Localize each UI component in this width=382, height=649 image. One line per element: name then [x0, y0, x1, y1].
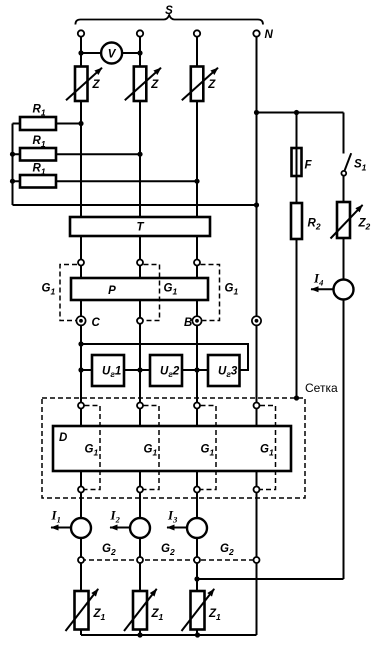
arrow of impedance Z1 phase 2 [124, 589, 157, 631]
junction dot chain line1 [78, 367, 83, 372]
terminal phase 1 [78, 30, 84, 36]
arrow of impedance Z phase 2 [125, 68, 161, 100]
arrow of impedance Z1 phase 1 [66, 589, 99, 631]
switch S1 contact [341, 171, 346, 176]
svg-text:B: B [184, 317, 192, 329]
svg-text:I2: I2 [110, 508, 121, 525]
svg-text:Сетка: Сетка [305, 381, 338, 395]
current source I4 [334, 280, 354, 300]
node circle line2 below D [137, 487, 143, 493]
wire phase line 2 main [139, 101, 141, 635]
impedance Z phase 2 [134, 67, 147, 102]
svg-text:I4: I4 [313, 271, 323, 288]
svg-text:Z: Z [92, 79, 101, 91]
dashed bracket G1 cell 1 in D [85, 406, 101, 490]
arrow of impedance Z phase 1 [66, 68, 102, 100]
svg-text:P: P [108, 285, 116, 297]
wire N to right branches [257, 112, 344, 114]
junction dot chain line3 [194, 367, 199, 372]
dashed bracket G1 cell 3 in D [201, 406, 217, 490]
svg-text:G2: G2 [161, 543, 175, 557]
svg-text:G1: G1 [225, 283, 239, 297]
svg-text:C: C [92, 317, 101, 329]
wire R1 common to N [13, 204, 257, 206]
wire bottom bus [81, 634, 257, 636]
svg-text:I3: I3 [167, 508, 178, 525]
svg-text:Z1: Z1 [151, 608, 164, 622]
impedance Z phase 1 [75, 67, 88, 102]
source block U3 [208, 355, 240, 386]
svg-text:Z2: Z2 [358, 218, 371, 232]
svg-text:I1: I1 [51, 508, 61, 525]
svg-text:N: N [265, 29, 274, 41]
dashed G2 link [81, 559, 257, 561]
wire S1 Z2 column upper [343, 113, 345, 154]
wire phase line 3 main [196, 101, 198, 635]
junction dot R1-2 line2 [137, 152, 142, 157]
svg-text:S: S [165, 5, 173, 17]
switch S1 blade [345, 153, 352, 171]
current source I3 [187, 518, 207, 538]
wire S1 Z2 I4 column lower [343, 176, 345, 580]
svg-text:R1: R1 [33, 104, 46, 118]
svg-text:Z1: Z1 [93, 608, 106, 622]
node circle line1 above D [78, 403, 84, 409]
svg-text:G2: G2 [220, 543, 234, 557]
dashed network box Setka [42, 398, 305, 498]
junction dot bus line2 [137, 632, 142, 637]
junction dot R1-3 line3 [194, 179, 199, 184]
arrow I2 [110, 527, 130, 529]
voltmeter V [101, 43, 122, 64]
terminal line2 row [137, 318, 143, 324]
current source I1 [71, 518, 91, 538]
node circle line2 above D [137, 403, 143, 409]
wire R1-3 to line 3 [13, 180, 198, 182]
fuse F [292, 148, 302, 176]
wire phase line 1 main [80, 101, 82, 635]
terminal phase 2 [137, 30, 143, 36]
wire neutral line N [256, 37, 258, 635]
source block U1 [92, 355, 124, 386]
wire F R2 column [296, 113, 298, 399]
transformer block T [70, 217, 210, 236]
svg-text:F: F [305, 160, 313, 172]
brace S over supply terminals [75, 15, 263, 25]
wire phase line 1 upper [80, 37, 82, 67]
arrow I3 [167, 527, 187, 529]
junction dot N common [254, 202, 259, 207]
resistor R1 second [20, 148, 56, 161]
node circle line1 above P [78, 260, 84, 266]
node circle G2 line2 [137, 557, 143, 563]
terminal N [253, 30, 259, 36]
wire voltmeter branch [81, 52, 140, 54]
svg-text:G2: G2 [102, 543, 116, 557]
arrow of impedance Z2 [331, 205, 363, 239]
current source I2 [130, 518, 150, 538]
resistor R1 first [20, 117, 56, 130]
terminal C [76, 316, 85, 325]
junction dot voltmeter right [137, 50, 142, 55]
arrow I4 [311, 288, 334, 290]
svg-text:S1: S1 [354, 159, 367, 173]
node circle line2 above P [137, 260, 143, 266]
wire phase line 2 upper [139, 37, 141, 67]
svg-text:D: D [59, 432, 67, 444]
node circle line1 below D [78, 487, 84, 493]
svg-text:R1: R1 [33, 135, 46, 149]
node circle G2 line1 [78, 557, 84, 563]
terminal N row [252, 316, 261, 325]
svg-text:G1: G1 [42, 283, 56, 297]
terminal B [192, 316, 201, 325]
wire R1-1 to line 1 [13, 123, 82, 125]
terminal phase 3 [194, 30, 200, 36]
node circle G2 line4 [254, 557, 260, 563]
dashed bracket G1 around line 1 terminals [60, 265, 77, 321]
arrow I1 [51, 527, 71, 529]
wire generator chain [81, 369, 240, 371]
arrow of impedance Z phase 3 [182, 68, 218, 100]
svg-text:T: T [136, 222, 144, 234]
junction dot rail R1-2 [10, 152, 15, 157]
svg-text:Z: Z [207, 79, 216, 91]
dashed bracket G1 cell 2 in D [144, 406, 160, 490]
node circle line4 below D [254, 487, 260, 493]
wire I4 return to line 3 [197, 578, 344, 580]
node circle line3 above P [194, 260, 200, 266]
svg-text:R1: R1 [33, 163, 46, 177]
wire generator ring wrap [81, 344, 248, 370]
junction dot N branch [254, 110, 259, 115]
dashed bracket G1 around line 3 terminals [201, 265, 220, 321]
svg-text:R2: R2 [308, 218, 321, 232]
junction dot wrap line1 [78, 341, 83, 346]
resistor R2 [291, 203, 302, 239]
impedance Z1 phase 3 [191, 591, 205, 630]
junction dot return line3 [194, 576, 199, 581]
impedance Z2 [337, 202, 350, 238]
impedance Z phase 3 [191, 67, 204, 102]
node circle line3 above D [194, 403, 200, 409]
wire R1-2 to line 2 [13, 153, 141, 155]
block D [53, 426, 291, 471]
wire R1 left rail [12, 124, 14, 206]
junction dot bus line3 [195, 632, 200, 637]
arrow of impedance Z1 phase 3 [182, 589, 215, 631]
impedance Z1 phase 1 [75, 591, 89, 630]
junction dot voltmeter left [78, 50, 83, 55]
svg-text:Z1: Z1 [208, 608, 221, 622]
dashed bracket G1 cell 4 in D [260, 406, 276, 490]
dashed bracket G1 around line 2 terminals [144, 265, 160, 321]
wire phase line 3 upper [196, 37, 198, 67]
source block U2 [150, 355, 182, 386]
junction dot rail R1-3 [10, 179, 15, 184]
converter block P [71, 278, 208, 300]
node circle line4 above D [254, 403, 260, 409]
svg-text:V: V [108, 48, 117, 60]
junction dot R1-1 line1 [78, 121, 83, 126]
node circle G2 line3 [194, 557, 200, 563]
impedance Z1 phase 2 [133, 591, 147, 630]
resistor R1 third [20, 175, 56, 188]
junction dot R2 to network box [294, 395, 299, 400]
junction dot chain line2 [137, 367, 142, 372]
junction dot F branch [294, 110, 299, 115]
node circle line3 below D [194, 487, 200, 493]
svg-text:Z: Z [150, 79, 159, 91]
